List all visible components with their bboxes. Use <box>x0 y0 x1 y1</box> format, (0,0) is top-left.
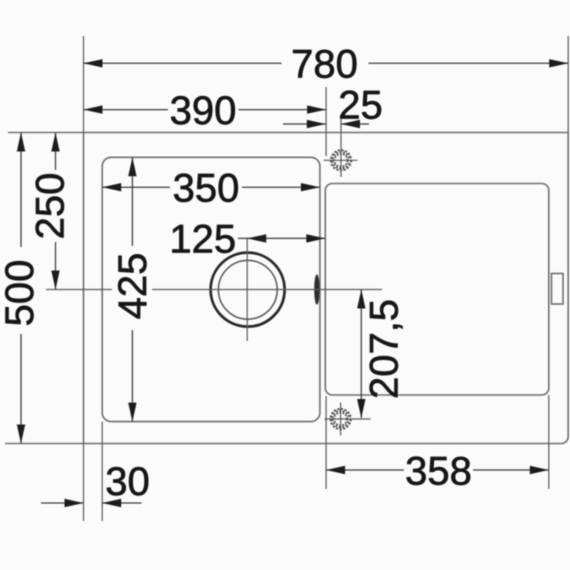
svg-text:500: 500 <box>0 260 42 327</box>
svg-text:425: 425 <box>111 253 155 320</box>
faucet hole bottom <box>325 403 371 436</box>
svg-text:358: 358 <box>405 450 472 494</box>
svg-text:250: 250 <box>29 173 73 240</box>
svg-text:30: 30 <box>105 460 150 504</box>
wire: centre extension top <box>325 87 327 156</box>
centre line horizontal <box>46 289 112 291</box>
drain outer circle <box>211 253 285 327</box>
drainer rounded rect <box>325 184 549 396</box>
dimension 250 line <box>55 133 57 171</box>
dimension 500 line <box>20 133 22 248</box>
faucet hole top <box>324 117 358 177</box>
dimension 125 line <box>238 237 325 239</box>
dimension 30 line <box>41 502 84 504</box>
drain inner circle <box>218 260 277 319</box>
dimension 390 line <box>84 109 169 111</box>
wire: centre extension bottom (358 left) <box>325 396 327 489</box>
wire: top edge left extension <box>8 132 84 134</box>
dimension 425 line <box>131 157 133 246</box>
wire: left edge bottom extension <box>83 444 85 522</box>
wire: drainer-right bottom extension (358 right) <box>548 395 550 489</box>
wire: bowl-left bottom extension <box>101 422 103 521</box>
svg-text:25: 25 <box>338 84 383 128</box>
dimension 207,5 line <box>360 290 362 419</box>
overflow slot on bowl right wall <box>314 274 319 305</box>
svg-text:125: 125 <box>169 218 236 262</box>
sink outer rim rect 780x500 <box>84 133 569 444</box>
svg-text:390: 390 <box>170 89 237 133</box>
centre line drain vertical <box>246 238 248 341</box>
dimension 25 line <box>283 123 326 125</box>
dimension 780 line <box>84 62 282 64</box>
dimension 358 line <box>326 469 404 471</box>
wire: left edge top extension <box>83 36 85 133</box>
wire: right edge top extension <box>567 36 569 133</box>
dimension 350 line <box>102 186 170 188</box>
svg-text:780: 780 <box>291 43 358 87</box>
overflow notch on right rim <box>552 274 564 305</box>
bowl rounded rect 350x425 <box>102 157 320 421</box>
wire: bottom edge left extension <box>5 443 84 445</box>
svg-text:350: 350 <box>173 167 240 211</box>
svg-text:207,5: 207,5 <box>363 299 407 399</box>
